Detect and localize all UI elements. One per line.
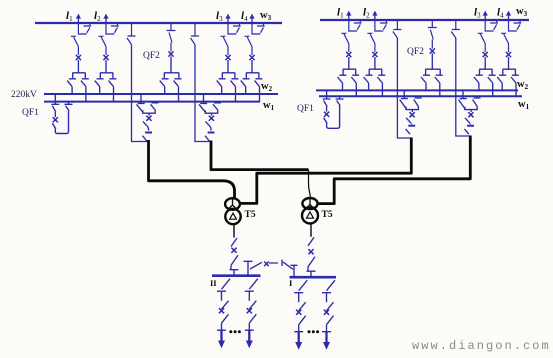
transformer T5 right: delta winding symbol (307, 212, 314, 218)
transformer bay bus disconnector from W2 (199, 94, 207, 112)
bus tie: riser from bus II (244, 261, 253, 275)
bus selector split bar (246, 73, 259, 78)
line l2-right bypass disconnector (hook to bypass bus W3) (375, 20, 388, 31)
line l3-right disconnector (line side) (478, 33, 486, 52)
line l2-left wire: breaker to bus-selector split (105, 60, 107, 73)
line l4-left circuit breaker QF (x mark) (249, 55, 254, 60)
bus tie: middle wire and right disconnector (269, 260, 293, 270)
bus II (low-voltage section II busbar) (212, 274, 261, 277)
bus disconnector to W2 (tick and blade) (364, 75, 373, 90)
distribution feeder I-a: line disconnector (294, 316, 306, 332)
wire: left bay2 to transformer T5b primary top (black) (211, 141, 309, 170)
transformer bay disconnector (blade, tick) (406, 118, 412, 124)
line l2-left bypass disconnector (hook to bypass bus W3) (106, 23, 119, 34)
transformer bay junction blade to transformer lead (143, 136, 147, 141)
distribution feeder II-a: line disconnector (217, 314, 229, 330)
outgoing line l1-left: exit arrow (77, 18, 79, 23)
wire: left bay1 to transformer T5a primary top (black) (149, 140, 235, 199)
transformer bay circuit breaker (x mark) (410, 112, 415, 117)
distribution feeder I-b: circuit breaker (x mark) (327, 302, 334, 311)
outgoing line l2-left: exit arrow (105, 18, 107, 23)
svg-text:T5: T5 (245, 210, 256, 220)
line l3-right wire: breaker to bus-selector split (484, 57, 486, 69)
bus W2 right section (main busbar 2) (316, 89, 518, 91)
distribution feeder I-b: line disconnector (322, 316, 334, 332)
transformer bay bus disconnector from W1 (473, 96, 481, 106)
transformer bay selector U-bracket (465, 106, 477, 112)
line l2-right wire: breaker to bus-selector split (374, 57, 376, 69)
transformer T5 left: primary winding circle (225, 198, 240, 210)
distribution feeder II-a: circuit breaker (x mark) (222, 301, 229, 310)
line l1-left disconnector (line side) (71, 36, 79, 55)
distribution feeder I-b: bus disconnector (322, 280, 335, 302)
distribution feeder I-a: outgoing arrow (298, 332, 300, 344)
transformer bypass branch wire (W3 down to transformer lead) (456, 38, 471, 136)
bus selector split bar (72, 73, 85, 78)
transformer bay bus disconnector from W1 (213, 102, 221, 110)
wire: right bay1 to transformer T5a primary side (black) (240, 138, 411, 204)
svg-text:QF1: QF1 (297, 104, 314, 114)
transformer bay disconnector (blade, tick) (205, 121, 211, 130)
bus W2 left section (main busbar 2) (44, 93, 278, 95)
line l2-left disconnector (line side) (99, 36, 107, 55)
bus disconnector to W1 (tick and blade) (255, 79, 263, 102)
bus disconnector to W2 (tick and blade) (338, 75, 347, 90)
distribution feeder II-b: line disconnector (245, 314, 256, 330)
svg-text:220kV: 220kV (11, 90, 37, 100)
transformer bypass disconnector from bus W3 (127, 23, 136, 45)
line l1-right bypass disconnector (hook to bypass bus W3) (349, 20, 362, 31)
line l3-left wire: breaker to bus-selector split (227, 60, 229, 73)
transformer bay disconnector (blade, tick) (143, 121, 149, 130)
outgoing line l2-right: exit arrow (374, 15, 376, 20)
bus selector split bar (369, 69, 382, 74)
transformer bay selector U-bracket (406, 106, 418, 112)
bus coupler disconnector from W2 (51, 94, 59, 112)
wire: thin drop into T5b top (309, 170, 311, 199)
transformer bay bus disconnector from W1 (414, 96, 422, 106)
bypass breaker bay: disconnector from bypass bus W3 (167, 23, 176, 52)
bus disconnector to W1 (tick and blade) (351, 75, 359, 96)
distribution feeder I-b: outgoing arrow (325, 332, 327, 344)
line l2-left circuit breaker QF (x mark) (103, 55, 108, 60)
bus disconnector to W2 (tick and blade) (241, 79, 250, 94)
bus disconnector to W2 (tick and blade) (95, 79, 104, 94)
svg-text:QF2: QF2 (407, 47, 424, 57)
bus disconnector to W2 (tick and blade) (160, 79, 169, 94)
line l1-left circuit breaker QF (x mark) (76, 55, 81, 60)
bus selector split bar (503, 69, 516, 74)
line l3-left bypass disconnector (hook to bypass bus W3) (228, 23, 241, 34)
svg-text:QF2: QF2 (143, 51, 160, 61)
outgoing line l4-left: exit arrow (251, 18, 253, 23)
transformer bay bus disconnector from W2 (459, 90, 467, 108)
bus selector split bar (100, 73, 113, 78)
line l3-left disconnector (line side) (221, 36, 229, 55)
bus disconnector to W1 (tick and blade) (81, 79, 89, 102)
bus tie: riser to bus I (291, 265, 298, 277)
transformer bypass branch wire (W3 down to transformer lead) (132, 45, 149, 142)
bus disconnector to W2 (tick and blade) (421, 75, 430, 90)
bus disconnector to W2 (tick and blade) (497, 75, 506, 90)
outgoing line l1-right: exit arrow (348, 15, 350, 20)
distribution feeder II-a: outgoing arrow (220, 330, 222, 342)
transformer bay bus disconnector from W2 (400, 90, 408, 108)
svg-text:II: II (210, 278, 217, 288)
transformer bay bus disconnector from W1 (151, 102, 159, 110)
transformer LV disconnector (307, 257, 316, 278)
line l1-right disconnector (line side) (341, 33, 349, 52)
bus selector split bar (164, 73, 179, 78)
transformer T5 right: primary winding circle (302, 198, 317, 209)
transformer bay junction blade to transformer lead (205, 136, 209, 141)
distribution feeder II-b: circuit breaker (x mark) (249, 301, 256, 310)
transformer bay selector U-bracket (205, 110, 217, 116)
bus W3 left section (bypass busbar) (35, 22, 282, 24)
distribution feeder I-a: circuit breaker (x mark) (299, 302, 306, 311)
transformer bypass disconnector from bus W3 (393, 20, 402, 38)
outgoing line l3-left: exit arrow (227, 18, 229, 23)
line l4-right disconnector (line side) (501, 33, 509, 52)
transformer bay junction blade to transformer lead (406, 129, 410, 134)
ellipsis dots between feeders of bus II (229, 330, 232, 333)
transformer low-voltage lead (black) (233, 224, 235, 238)
bus disconnector to W2 (tick and blade) (67, 79, 76, 94)
svg-text:T5: T5 (322, 210, 333, 220)
bus disconnector to W1 (tick and blade) (435, 75, 443, 96)
svg-text:QF1: QF1 (22, 108, 39, 118)
transformer T5 left: primary winding star symbol (229, 199, 236, 209)
bypass bay wire: QF2 to bus-selector split (431, 54, 433, 70)
bus coupler lower disconnector and U loop to W1 side (324, 106, 340, 129)
transformer bypass disconnector from bus W3 (191, 23, 200, 45)
bus I (low-voltage section I busbar) (290, 276, 337, 279)
outgoing line l4-right: exit arrow (508, 15, 510, 20)
transformer bypass branch wire (W3 down to transformer lead) (195, 45, 211, 142)
wire: right bay2 to transformer T5b primary side (black) (318, 136, 470, 204)
bus coupler disconnector from W1 (336, 96, 344, 105)
transformer bay circuit breaker (x mark) (209, 116, 214, 121)
transformer bay circuit breaker (x mark) (146, 116, 151, 121)
transformer LV disconnector (230, 255, 239, 276)
line l4-left wire: breaker to bus-selector split (251, 60, 253, 73)
bypass circuit breaker QF2 (x mark) (430, 48, 435, 53)
transformer bay bus disconnector from W2 (137, 94, 145, 112)
line l3-left circuit breaker QF (x mark) (225, 55, 230, 60)
distribution feeder II-b: bus disconnector (245, 279, 258, 301)
bus disconnector to W1 (tick and blade) (488, 75, 496, 96)
bus disconnector to W1 (tick and blade) (511, 75, 519, 96)
line l3-right circuit breaker QF (x mark) (483, 52, 488, 57)
bus coupler disconnector from W1 (65, 102, 73, 111)
bypass bay wire: QF2 to bus-selector split (170, 57, 172, 73)
transformer T5 left: delta winding symbol (230, 213, 237, 219)
line l1-right wire: breaker to bus-selector split (348, 57, 350, 69)
bus coupler breaker QF1 (x mark) (54, 112, 56, 117)
bus disconnector to W1 (tick and blade) (109, 79, 117, 102)
svg-text:www.diangon.com: www.diangon.com (412, 339, 551, 353)
bypass circuit breaker QF2 (x mark) (168, 51, 173, 56)
transformer bay circuit breaker (x mark) (468, 112, 473, 117)
outgoing line l3-right: exit arrow (484, 15, 486, 20)
transformer low-voltage lead (black) (310, 223, 312, 237)
bus selector split bar (343, 69, 356, 74)
line l1-right circuit breaker QF (x mark) (346, 52, 351, 57)
line l4-right circuit breaker QF (x mark) (506, 52, 511, 57)
bus W1 left section (main busbar 1) (44, 101, 260, 103)
line l4-left disconnector (line side) (245, 36, 253, 55)
ellipsis dots between feeders of bus I (308, 330, 311, 333)
bus disconnector to W1 (tick and blade) (231, 79, 239, 102)
bus coupler breaker QF1 (x mark) (326, 107, 328, 112)
bus disconnector to W2 (tick and blade) (474, 75, 483, 90)
bus selector split bar (479, 69, 492, 74)
transformer bay disconnector (blade, tick) (465, 118, 471, 124)
transformer T5 left: secondary winding circle (225, 209, 240, 224)
distribution feeder I-a: bus disconnector (294, 280, 307, 302)
bus selector split bar (222, 73, 235, 78)
line l4-right bypass disconnector (hook to bypass bus W3) (509, 20, 522, 31)
line l4-left bypass disconnector (hook to bypass bus W3) (252, 23, 265, 34)
bus W3 right section (bypass busbar) (320, 19, 529, 21)
distribution feeder II-b: outgoing arrow (248, 330, 250, 342)
transformer bypass branch wire (W3 down to transformer lead) (397, 38, 411, 138)
transformer bay selector U-bracket (143, 110, 155, 116)
bus W1 right section (main busbar 1) (319, 95, 522, 97)
line l2-right circuit breaker QF (x mark) (372, 52, 377, 57)
line l1-left wire: breaker to bus-selector split (77, 60, 79, 73)
transformer LV circuit breaker (x mark) (308, 237, 314, 246)
bus coupler disconnector from W2 (323, 90, 331, 106)
line l4-right wire: breaker to bus-selector split (508, 57, 510, 69)
transformer LV circuit breaker (x mark) (231, 238, 237, 247)
line l1-left bypass disconnector (hook to bypass bus W3) (78, 23, 91, 34)
bus tie: breaker (x mark) (264, 262, 269, 267)
transformer T5 right: primary winding star symbol (307, 198, 314, 208)
bypass breaker bay: disconnector from bypass bus W3 (428, 20, 437, 49)
bus disconnector to W1 (tick and blade) (174, 79, 182, 102)
transformer bay junction blade to transformer lead (465, 129, 469, 134)
bus tie: left disconnector blade (250, 262, 262, 269)
bus disconnector to W2 (tick and blade) (217, 79, 226, 94)
distribution feeder II-a: bus disconnector (217, 279, 230, 301)
line l2-right disconnector (line side) (367, 33, 375, 52)
bus coupler lower disconnector and U loop to W1 side (52, 111, 68, 134)
bus disconnector to W1 (tick and blade) (377, 75, 385, 96)
transformer bypass disconnector from bus W3 (451, 20, 460, 38)
transformer T5 right: secondary winding circle (302, 208, 318, 224)
bus selector split bar (425, 69, 440, 74)
line l3-right bypass disconnector (hook to bypass bus W3) (485, 20, 498, 31)
